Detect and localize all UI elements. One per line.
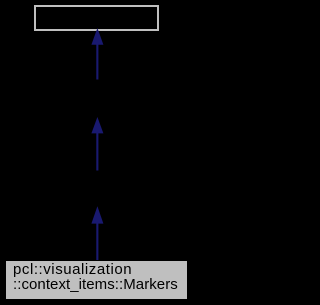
arrow: Points -> PCLContextItem <box>91 117 103 171</box>
arrow: PCLContextItem -> vtkContextItem <box>91 28 103 80</box>
node label text <box>13 263 178 292</box>
inheritance arrows <box>0 0 193 305</box>
node pcl::visualization::context_items::Markers (current class, gray fill) <box>5 260 188 300</box>
node vtkContextItem (empty gray-bordered box) <box>34 5 159 31</box>
arrow: Markers -> Points <box>91 206 103 260</box>
